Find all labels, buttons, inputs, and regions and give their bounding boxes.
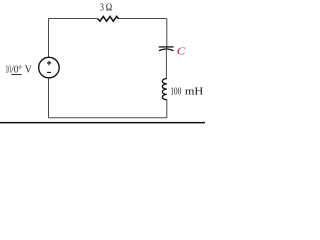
svg-text:/0°: /0° (11, 64, 21, 76)
svg-text:V: V (25, 64, 32, 76)
svg-text:Ω: Ω (106, 1, 112, 13)
svg-text:3: 3 (100, 1, 104, 13)
svg-text:mH: mH (185, 86, 203, 98)
svg-text:C: C (177, 45, 186, 57)
svg-text:100: 100 (170, 86, 182, 98)
